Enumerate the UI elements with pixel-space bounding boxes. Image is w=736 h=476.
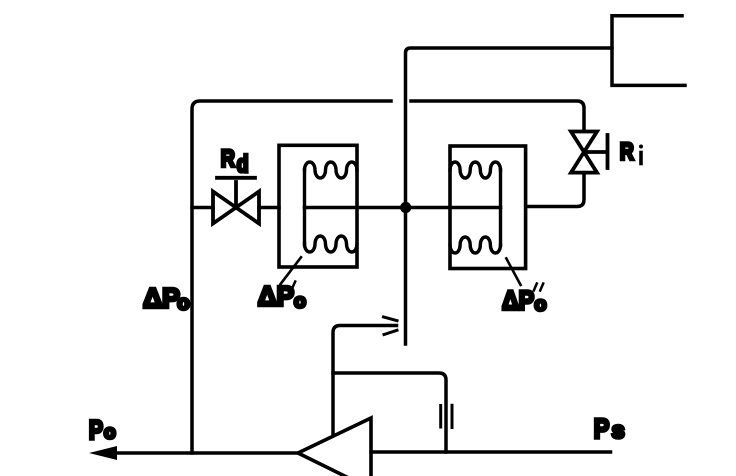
leader line to left capsule	[281, 257, 302, 284]
svg-text:o: o	[535, 294, 547, 316]
svg-text:R: R	[620, 137, 634, 165]
svg-text:s: s	[612, 417, 625, 443]
left capsule bellows: top corrugation	[305, 162, 358, 178]
svg-text:o: o	[104, 422, 116, 443]
left capsule box dP'0	[279, 145, 357, 267]
amplifier triangle (points left, clipped at bottom)	[298, 418, 371, 476]
svg-text:P: P	[594, 414, 610, 444]
wire: left riser tee to valve Rd	[192, 206, 213, 210]
right capsule bellows: top corrugation	[450, 162, 501, 178]
wire: tee from flapper arm to feedback restrictor drop	[333, 373, 446, 452]
wire: left riser (dP0 line) with rounded corner into top feedback line	[192, 101, 391, 453]
right capsule box dP''0	[450, 146, 526, 269]
svg-text:R: R	[221, 144, 235, 172]
wire: top feedback line right segment, corner down to valve Ri	[411, 101, 584, 131]
right capsule bellows: inner vertical wall	[499, 170, 502, 245]
node: junction dot on center line	[400, 202, 411, 213]
svg-text:ΔP: ΔP	[502, 286, 534, 316]
wire: output line left of amplifier apex	[115, 451, 298, 455]
valve Ri (vertical bowtie)	[571, 132, 608, 173]
flapper: horizontal arm, corner down, input to amplifier	[333, 326, 397, 435]
svg-text:o: o	[177, 292, 189, 314]
restrictor (two bars) on vertical feedback line	[439, 406, 442, 428]
svg-text:P: P	[89, 416, 103, 446]
prime mark	[292, 282, 295, 289]
left capsule bellows: bottom corrugation	[305, 236, 358, 252]
wire: supply branch from nozzle riser to relay box top-right	[406, 48, 613, 344]
relay box (open right, top-right corner of drawing)	[612, 16, 685, 86]
arrow: P0 output direction	[89, 446, 117, 460]
wire: valve Ri bottom to right capsule	[526, 173, 584, 207]
double prime mark	[534, 284, 537, 291]
svg-text:ΔP: ΔP	[143, 282, 180, 314]
svg-text:ΔP: ΔP	[258, 281, 294, 312]
wire: center measuring line from left bellows through junction to right bellows	[305, 206, 501, 210]
nozzle gap marks (open arrowhead on flapper)	[384, 317, 398, 321]
left capsule bellows: inner vertical wall	[303, 170, 306, 244]
svg-text:d: d	[237, 150, 249, 178]
right capsule bellows: bottom corrugation	[450, 237, 501, 253]
wire: supply line right of amplifier	[371, 450, 611, 454]
svg-text:o: o	[294, 291, 306, 313]
wire: valve Rd to left capsule box	[259, 206, 279, 210]
leader line to right capsule	[506, 258, 520, 285]
valve Rd (horizontal bowtie) with stem and handle	[213, 178, 259, 224]
